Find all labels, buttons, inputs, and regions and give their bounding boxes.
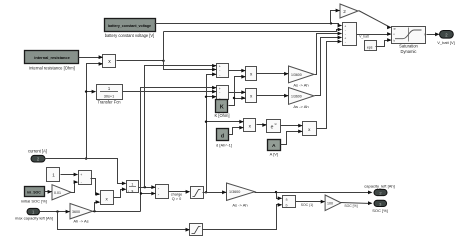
svg-text:A: A [272, 143, 276, 149]
wire E0 tap to gain 2 [331, 9, 341, 24]
wire P2 to G1 [257, 72, 289, 76]
svg-text:V_batt [V]: V_batt [V] [437, 40, 455, 45]
input port current oval [28, 149, 47, 162]
svg-text:charge: charge [171, 192, 183, 196]
wire E0 to S5 in1 [155, 22, 343, 27]
product P1 (R x i) [103, 55, 116, 68]
wire transfer fcn to S2 in2 [123, 90, 217, 94]
constant ini_SOC [21, 187, 47, 204]
svg-text:capacity_left [Ah]: capacity_left [Ah] [364, 183, 394, 188]
wire P3 to G2 [257, 94, 289, 98]
output port SOC oval [372, 200, 388, 213]
constant d [Ah^-1] [216, 129, 232, 148]
svg-text:0.01: 0.01 [54, 191, 61, 195]
constant battery_constant_voltage [105, 19, 156, 39]
wire P1 output to S5 in2 and S1 in2 [117, 28, 343, 72]
svg-text:A [V]: A [V] [270, 151, 278, 156]
wire internal_resistance to P1 [79, 55, 104, 59]
wire big gain to capacity port and divide a [255, 191, 373, 201]
gain big 1/3600 [227, 183, 255, 207]
sum S3 [79, 171, 92, 185]
svg-text:1/3600: 1/3600 [229, 190, 240, 194]
svg-text:max capacity left [Ah]: max capacity left [Ah] [15, 215, 53, 220]
product P4 [244, 119, 256, 132]
input port max capacity oval [15, 208, 53, 220]
gain G1 1/3600 [289, 66, 315, 88]
svg-text:u: u [275, 122, 277, 126]
svg-text:100: 100 [327, 201, 333, 205]
wire current to integrator [45, 159, 127, 186]
svg-text:Q > 0: Q > 0 [172, 197, 181, 201]
svg-text:SOC (1): SOC (1) [301, 203, 313, 207]
constant internal_resistance [25, 51, 79, 71]
wire saturation to V_batt port [427, 32, 440, 36]
wire 3600 gain to P6 in2 and Q bus [93, 86, 217, 213]
svg-text:K [Ohm]: K [Ohm] [214, 113, 229, 118]
svg-text:ini_SOC: ini_SOC [27, 190, 41, 194]
svg-text:V_batt: V_batt [359, 35, 369, 39]
svg-text:1: 1 [52, 172, 55, 177]
exp block e^u [267, 120, 281, 133]
gain G2 1/3600 [289, 88, 315, 110]
svg-text:+: + [80, 173, 82, 177]
constant A [V] [268, 140, 281, 157]
svg-text:d: d [221, 133, 224, 139]
saturation SAT2 [190, 224, 203, 236]
wire switch to SAT1 [169, 190, 191, 194]
wire G2 to S5 in4 [315, 36, 343, 96]
wire max capacity to 3600 gain and SAT2 [40, 210, 190, 232]
svg-text:internal resistance [Ohm]: internal resistance [Ohm] [29, 65, 75, 70]
gain 2 (triangle) [340, 4, 358, 18]
wire P4 to exp [257, 123, 267, 127]
output port V_batt oval [437, 31, 455, 45]
svg-text:d [Ah^-1]: d [Ah^-1] [216, 143, 232, 148]
integrator 1/s [127, 181, 139, 193]
wire d to P4 in2 [229, 126, 244, 135]
wire SAT2 to divide b [203, 203, 283, 230]
product P5 [303, 122, 317, 136]
svg-text:e: e [271, 124, 274, 130]
svg-text:As -> Ah: As -> Ah [232, 202, 247, 207]
constant eps [365, 41, 377, 51]
svg-text:As -> Ah: As -> Ah [293, 83, 308, 88]
svg-text:2: 2 [343, 9, 346, 14]
svg-text:a: a [286, 198, 288, 202]
svg-text:-: - [345, 40, 346, 44]
gain 3600 [70, 204, 93, 224]
wire P6 to integrator in2 [114, 187, 127, 197]
svg-text:current [A]: current [A] [28, 149, 47, 154]
wire eps to saturation lo [376, 38, 392, 46]
gain 0.01 [52, 185, 71, 200]
svg-text:battery constant voltage [V]: battery constant voltage [V] [105, 33, 155, 38]
svg-text:30s+1: 30s+1 [104, 94, 114, 98]
svg-text:initial SOC [%]: initial SOC [%] [21, 198, 47, 203]
wire it feedback riser [205, 72, 244, 193]
wire S3 to P6 [91, 179, 101, 196]
wire K output to P2 in2 and P3 in2 [229, 75, 246, 106]
divide block a/b [283, 196, 296, 208]
transfer function block 1/(30s+1) [97, 85, 123, 105]
saturation SAT1 [191, 187, 204, 199]
wire G1 to S5 in3 [315, 32, 343, 75]
svg-text:As -> Ah: As -> Ah [293, 104, 308, 109]
svg-text:K: K [220, 104, 224, 110]
product P6 [101, 191, 114, 205]
wire P5 to S5 in5 [317, 40, 343, 129]
svg-text:1/3600: 1/3600 [291, 95, 302, 99]
sum S5 (5 inputs) [343, 23, 357, 46]
wire S2 to P3 [229, 90, 246, 94]
product P3 [246, 89, 257, 103]
wire exp to P5 [281, 124, 303, 128]
svg-text:Ah -> As: Ah -> As [73, 219, 88, 224]
svg-text:s: s [132, 189, 134, 193]
wire S5 output to saturation (V_batt) [357, 32, 392, 39]
svg-text:SOC [%]: SOC [%] [344, 204, 357, 208]
svg-text:3600: 3600 [72, 210, 80, 214]
svg-text:b: b [286, 204, 288, 208]
wire gain2 triangle to saturation up [359, 11, 392, 30]
svg-text:internal_resistance: internal_resistance [34, 55, 70, 60]
svg-text:Transfer Fcn: Transfer Fcn [97, 100, 121, 105]
svg-text:Dynamic: Dynamic [401, 49, 417, 54]
wire S1 to P2 [229, 69, 246, 73]
wire divide to gain 100 (SOC) [296, 200, 326, 207]
wire SAT1 to big gain [203, 190, 227, 194]
wire constant 1 to S3 [61, 173, 79, 177]
constant 1 [47, 168, 60, 182]
sum S2 [217, 86, 229, 100]
saturation dynamic block [392, 27, 426, 54]
output port capacity_left oval [364, 183, 394, 195]
svg-text:battery_constant_voltage: battery_constant_voltage [108, 24, 151, 28]
sum S1 [217, 64, 229, 78]
product P2 [246, 67, 257, 81]
svg-text:1: 1 [131, 183, 133, 187]
wire ini_SOC to gain 0.01 [45, 190, 53, 194]
wire gain 0.01 to S3 in2 [71, 180, 79, 192]
svg-text:eps: eps [367, 45, 373, 49]
constant K [Ohm] [214, 100, 229, 119]
wire integrator to switch and it riser [139, 64, 217, 189]
wire gain 100 to SOC port [341, 201, 373, 208]
wire A to P5 in2 [281, 130, 303, 145]
svg-text:SOC [%]: SOC [%] [372, 208, 388, 213]
switch block (charge Q>0) [156, 185, 183, 202]
wire current riser to P1 and Transfer Fcn [85, 62, 103, 160]
svg-text:1/3600: 1/3600 [291, 73, 302, 77]
gain 100 [325, 195, 341, 211]
